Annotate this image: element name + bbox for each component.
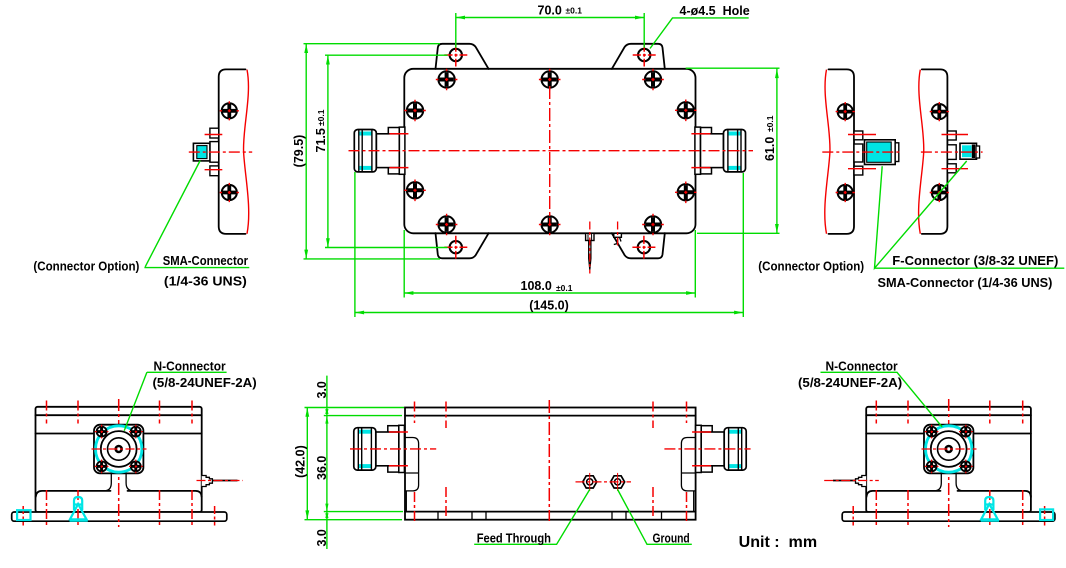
ground lug (plan) bbox=[614, 222, 622, 248]
ear hole top-left bbox=[444, 44, 467, 67]
leader to N flange left bbox=[124, 372, 226, 430]
panel screw lower bbox=[220, 183, 239, 202]
SMA2 tab centerlines bbox=[942, 135, 969, 169]
SMA2 centerline bbox=[921, 151, 983, 153]
SMA2 connector body bbox=[960, 143, 980, 159]
lid edge lines bbox=[866, 415, 1031, 433]
leader to SMA bbox=[144, 161, 249, 268]
svg-text:±0.1: ±0.1 bbox=[566, 6, 583, 16]
red verticals bbox=[876, 401, 1022, 526]
svg-text:108.0: 108.0 bbox=[521, 279, 552, 293]
center pin bbox=[946, 446, 952, 452]
dim 61.0 line bbox=[686, 68, 780, 233]
F connector flange tabs bbox=[854, 131, 863, 140]
feed-through pin right side bbox=[197, 476, 243, 487]
right inner bracket bbox=[681, 438, 695, 512]
dim 70.0 line bbox=[456, 13, 644, 48]
cyan flag marker bbox=[70, 497, 88, 521]
connector outer circle bbox=[931, 431, 967, 467]
svg-text:(Connector Option): (Connector Option) bbox=[33, 259, 139, 274]
svg-text:61.0: 61.0 bbox=[763, 137, 777, 161]
red verticals bbox=[47, 401, 193, 526]
horizontal centerline bbox=[349, 150, 754, 152]
cyan square marker bbox=[17, 510, 30, 520]
leader Feed Through bbox=[474, 490, 590, 545]
N flange square bbox=[924, 425, 973, 474]
connector inner circle bbox=[938, 438, 960, 460]
center pin bbox=[116, 446, 122, 452]
left inner bracket bbox=[404, 438, 418, 512]
base plate bbox=[842, 512, 1055, 521]
svg-text:36.0: 36.0 bbox=[315, 456, 329, 480]
F panel break line (red wavy) bbox=[825, 70, 830, 234]
cyan flag marker bbox=[981, 497, 999, 521]
ear hole top-right bbox=[633, 44, 656, 67]
SMA2 panel screw lower bbox=[930, 183, 949, 202]
lid edge lines bbox=[36, 415, 202, 433]
dim 108.0 line bbox=[404, 230, 695, 298]
svg-text:(1/4-36 UNS): (1/4-36 UNS) bbox=[164, 274, 247, 289]
F panel screw lower bbox=[836, 183, 855, 202]
connector outer circle bbox=[101, 431, 137, 467]
SMA2 panel screw upper bbox=[930, 102, 949, 121]
cyan circle bbox=[96, 426, 142, 472]
red centerlines connectors bbox=[350, 448, 436, 450]
mounting ear top-left bbox=[436, 44, 489, 69]
panel outline (black) bbox=[219, 69, 246, 234]
mounting ear top-right bbox=[612, 44, 665, 69]
lid line bbox=[405, 415, 696, 417]
svg-text:71.5: 71.5 bbox=[314, 128, 328, 152]
N connector left (plan) bbox=[354, 127, 408, 174]
flange crosshair bbox=[92, 448, 147, 450]
cyan square marker bbox=[1040, 509, 1053, 520]
ear hole bottom-right bbox=[632, 236, 655, 259]
dim (79.5) line bbox=[304, 44, 441, 259]
dim 3.0 top / 36.0 / 3.0 bottom line bbox=[324, 376, 403, 549]
body outline bbox=[36, 407, 202, 512]
svg-text:SMA-Connector: SMA-Connector bbox=[163, 253, 248, 268]
svg-text:70.0: 70.0 bbox=[538, 4, 562, 18]
right N connector (side) bbox=[692, 425, 746, 472]
mounting ear bottom-right bbox=[612, 233, 665, 258]
flange crosshair bbox=[922, 448, 977, 450]
svg-text:Feed Through: Feed Through bbox=[477, 531, 551, 546]
dim (145.0) line bbox=[355, 172, 743, 317]
feed-through pin (plan) bbox=[586, 222, 594, 274]
chassis box plan outline bbox=[404, 69, 695, 234]
red verticals center view bbox=[415, 402, 687, 522]
N flange square bbox=[94, 425, 143, 474]
lid screws left column bbox=[404, 100, 426, 122]
base plate bbox=[12, 512, 227, 521]
connector inner circle bbox=[108, 438, 130, 460]
svg-text:±0.1: ±0.1 bbox=[316, 109, 326, 126]
svg-text:±0.1: ±0.1 bbox=[556, 283, 573, 293]
ear hole bottom-left bbox=[444, 236, 467, 259]
base top line bbox=[405, 511, 696, 513]
feet ticks bbox=[438, 512, 662, 520]
ground hex nut bbox=[611, 473, 625, 491]
flange screws bbox=[95, 425, 109, 439]
F panel screw upper bbox=[836, 102, 855, 121]
svg-text:±0.1: ±0.1 bbox=[765, 115, 775, 132]
box outline bbox=[405, 408, 696, 520]
lid screws bottom row bbox=[436, 214, 458, 236]
leader Ground bbox=[618, 490, 692, 545]
svg-text:Unit : mm: Unit : mm bbox=[739, 534, 818, 551]
panel screw upper bbox=[220, 101, 239, 120]
flange screws bbox=[925, 425, 939, 439]
svg-text:Ground: Ground bbox=[653, 531, 690, 546]
vertical centerline bbox=[549, 86, 551, 224]
feed-through pin left side bbox=[824, 476, 879, 487]
pedestal bbox=[104, 473, 134, 491]
svg-text:(145.0): (145.0) bbox=[529, 299, 569, 313]
cyan circle bbox=[926, 426, 972, 472]
svg-text:N-Connector: N-Connector bbox=[154, 359, 226, 374]
svg-text:(42.0): (42.0) bbox=[293, 445, 307, 478]
red line through nuts bbox=[576, 481, 632, 483]
SMA2 panel break line (red wavy) bbox=[919, 70, 924, 234]
leader to N flange right bbox=[821, 372, 943, 427]
svg-text:SMA-Connector (1/4-36 UNS): SMA-Connector (1/4-36 UNS) bbox=[878, 275, 1053, 290]
svg-text:3.0: 3.0 bbox=[315, 381, 329, 398]
heatsink section line bbox=[866, 491, 1031, 497]
svg-text:(5/8-24UNEF-2A): (5/8-24UNEF-2A) bbox=[798, 375, 902, 390]
lid screws right column bbox=[675, 100, 697, 122]
panel break line (red wavy) bbox=[244, 70, 249, 234]
svg-text:3.0: 3.0 bbox=[315, 529, 329, 546]
svg-text:F-Connector (3/8-32 UNEF): F-Connector (3/8-32 UNEF) bbox=[892, 253, 1058, 268]
F tab centerlines bbox=[848, 135, 876, 169]
mounting ear bottom-left bbox=[436, 233, 489, 258]
SMA2 panel outline (black) bbox=[922, 69, 948, 234]
lid screws top row bbox=[436, 69, 458, 91]
label 4-ø4.5 Hole leader bbox=[650, 18, 749, 49]
svg-text:4-ø4.5 Hole: 4-ø4.5 Hole bbox=[680, 4, 750, 18]
heatsink section line bbox=[36, 491, 202, 497]
pedestal bbox=[934, 473, 964, 491]
SMA2 flange tabs bbox=[947, 131, 956, 140]
feed through hex nut bbox=[583, 473, 597, 491]
dim 71.5 line bbox=[325, 55, 448, 247]
body outline bbox=[866, 407, 1031, 512]
SMA tab centerlines bbox=[205, 135, 223, 170]
left N connector (side) bbox=[354, 425, 408, 472]
F connector body bbox=[865, 140, 899, 165]
N connector right (plan) bbox=[691, 127, 745, 174]
SMA centerline bbox=[189, 151, 252, 153]
svg-text:(5/8-24UNEF-2A): (5/8-24UNEF-2A) bbox=[153, 375, 257, 390]
F centerline bbox=[822, 151, 900, 153]
SMA connector flange tabs bbox=[210, 128, 219, 138]
svg-text:(79.5): (79.5) bbox=[292, 135, 306, 168]
SMA connector body bbox=[193, 143, 210, 161]
svg-text:(Connector Option): (Connector Option) bbox=[758, 259, 864, 274]
svg-text:N-Connector: N-Connector bbox=[826, 359, 898, 374]
dim (42.0) bbox=[305, 408, 405, 520]
leaders to F and SMA2 bbox=[875, 161, 1065, 268]
F panel outline (black) bbox=[829, 69, 855, 234]
